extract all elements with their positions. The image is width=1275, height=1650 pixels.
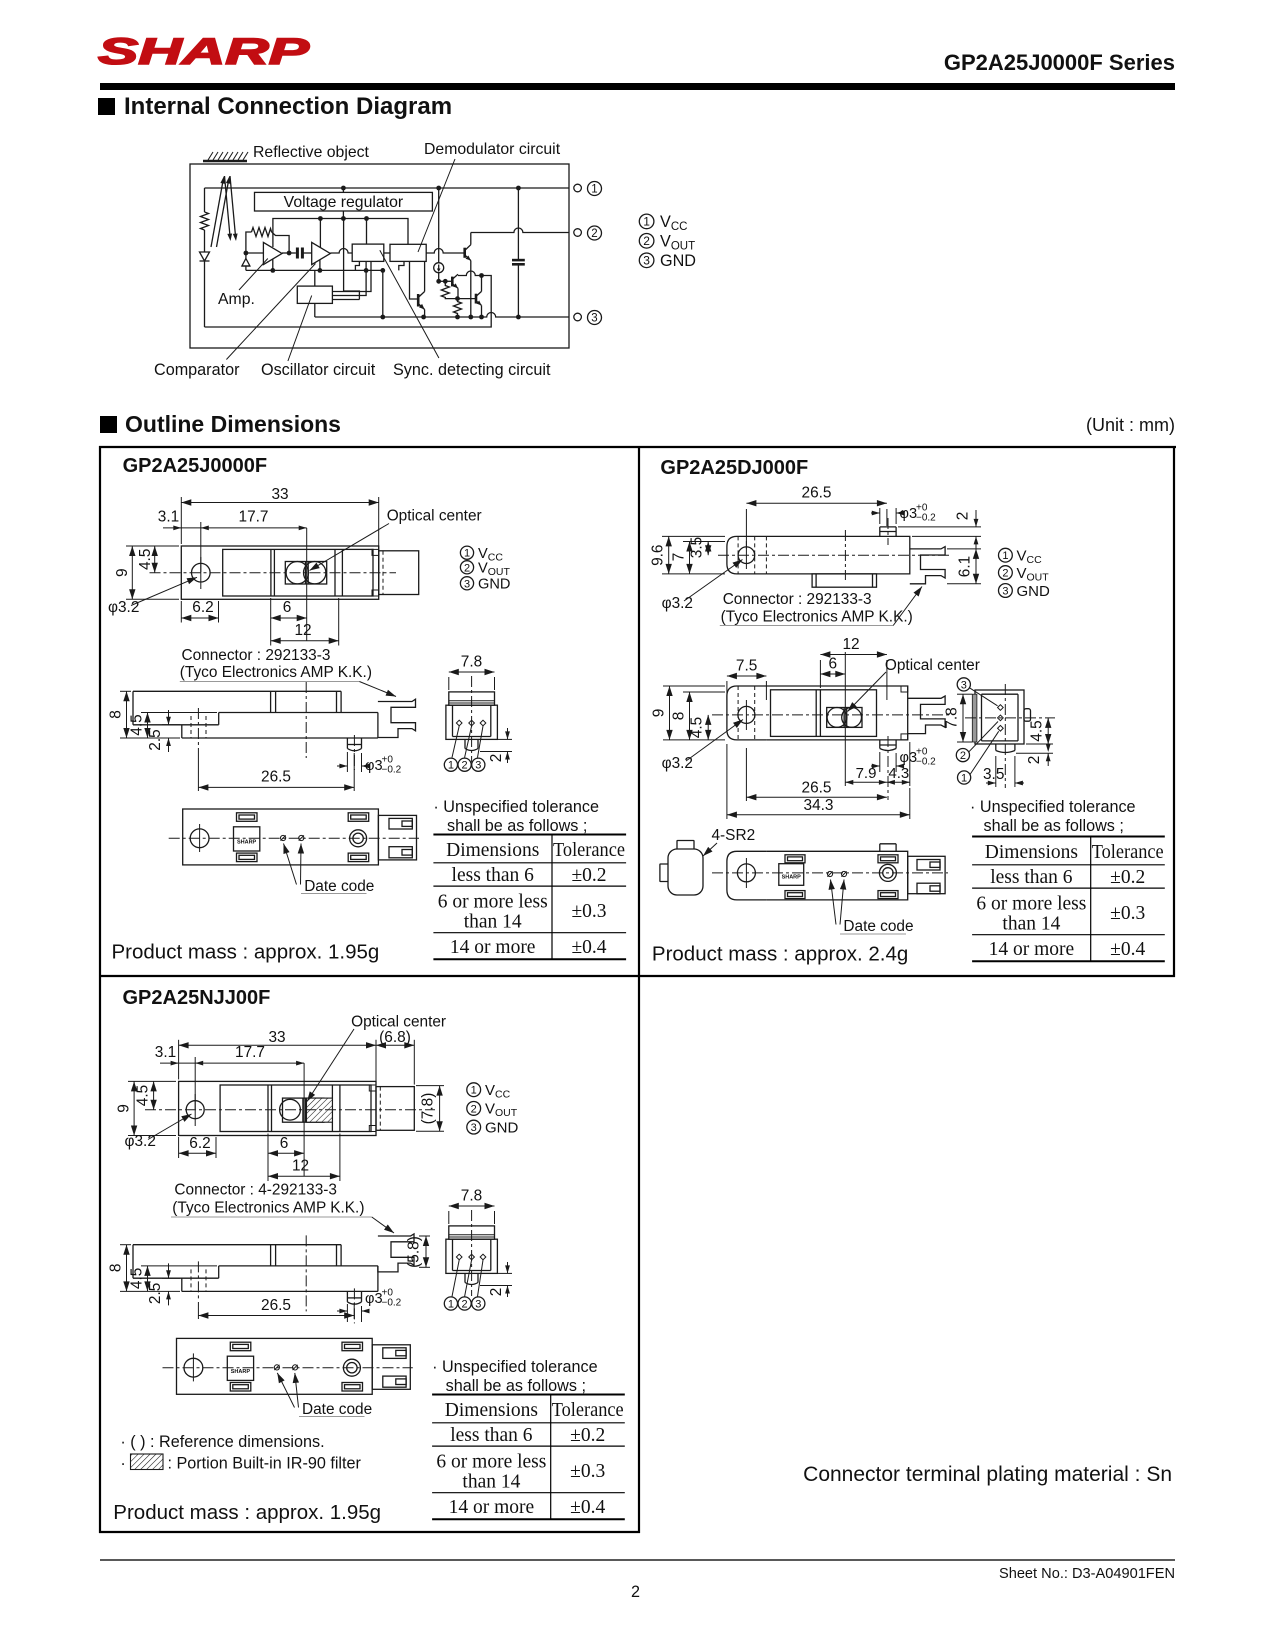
resistor R3	[441, 281, 457, 298]
node VCC-VR junction	[341, 186, 346, 191]
wire box2 lead to Q2 base	[410, 261, 419, 299]
svg-text:6: 6	[829, 656, 838, 673]
resistor R4	[454, 299, 462, 317]
svg-text:Comparator: Comparator	[154, 361, 240, 379]
pin legend	[460, 546, 473, 559]
svg-text:±0.4: ±0.4	[571, 937, 606, 958]
top view pin stub below	[880, 740, 896, 751]
svg-text:φ3.2: φ3.2	[125, 1133, 156, 1150]
dim 12	[820, 655, 887, 701]
bottom view reuse	[163, 1338, 413, 1394]
bottom view lens ring	[350, 830, 367, 847]
dim 8	[683, 692, 725, 740]
svg-text:Product mass : approx. 1.95g: Product mass : approx. 1.95g	[113, 1501, 381, 1524]
svg-text:φ3.2: φ3.2	[108, 599, 139, 616]
dim 6.2	[181, 601, 218, 623]
svg-text:3.5: 3.5	[689, 537, 706, 558]
dim 4.5	[153, 1081, 155, 1109]
dim 9.6	[662, 536, 725, 574]
dim 9	[128, 1081, 176, 1135]
dim 4.5 end	[1026, 718, 1053, 744]
wire lower sub rail	[246, 269, 383, 271]
end cap drawing	[668, 849, 703, 895]
side view fork	[910, 547, 945, 584]
bottom view connector	[378, 815, 416, 860]
wire feedback right lead	[272, 232, 290, 253]
dim phi3 pin NJJ	[337, 1304, 364, 1322]
svg-text:Voltage regulator: Voltage regulator	[284, 194, 403, 211]
svg-text:2: 2	[643, 234, 650, 248]
pin 3 GND terminal	[574, 313, 582, 321]
transistor Q1 output	[465, 245, 471, 261]
voltage regulator box U1	[255, 192, 433, 211]
svg-text:3: 3	[475, 760, 481, 772]
reflected light arrow 1	[225, 176, 230, 235]
svg-text:3: 3	[464, 578, 470, 590]
svg-text:3.1: 3.1	[158, 509, 179, 526]
top view connector	[376, 1087, 414, 1131]
side view reuse	[108, 1235, 378, 1323]
transistor Q2	[418, 292, 424, 310]
dim (7.8)	[416, 1086, 444, 1132]
svg-text:1: 1	[464, 548, 470, 560]
node sub rail VR stub	[341, 216, 346, 221]
wire feedback left lead	[246, 232, 252, 253]
bottom view body	[766, 851, 907, 900]
side view fork bracket	[378, 699, 416, 737]
end view body	[446, 705, 498, 739]
pin 1 VCC terminal	[574, 184, 582, 192]
end view cap	[449, 692, 495, 705]
svg-text:2: 2	[631, 1583, 640, 1601]
leader to demodulator box	[418, 159, 455, 252]
side view pin stub	[347, 738, 361, 751]
wire mirror bias line	[439, 280, 453, 282]
side view fork NJJ	[378, 1234, 414, 1272]
wire ground rail with hop	[315, 313, 569, 318]
dim 26.5 side	[198, 748, 354, 791]
svg-text:26.5: 26.5	[261, 1297, 291, 1314]
top view lens	[285, 562, 326, 585]
svg-text:VOUT: VOUT	[1017, 565, 1050, 584]
svg-text:9.6: 9.6	[650, 544, 667, 565]
svg-text:3: 3	[591, 313, 597, 325]
svg-text:3: 3	[643, 254, 650, 268]
svg-text:(Tyco Electronics AMP K.K.): (Tyco Electronics AMP K.K.)	[172, 1200, 364, 1217]
tolerance table	[972, 837, 1165, 962]
wire VR stub to VCC	[342, 188, 344, 192]
svg-text:7.8: 7.8	[944, 707, 961, 728]
reflective object hatch	[203, 152, 248, 161]
svg-text:less than 6: less than 6	[452, 865, 535, 886]
dim (6.8)	[376, 1040, 414, 1085]
svg-text:(Tyco Electronics AMP K.K.): (Tyco Electronics AMP K.K.)	[180, 664, 372, 681]
svg-text:Product mass : approx. 1.95g: Product mass : approx. 1.95g	[112, 941, 380, 964]
end view 7.8 dim	[449, 672, 495, 690]
wire VCC rail	[205, 187, 570, 189]
svg-text:1: 1	[591, 184, 597, 196]
svg-text:Connector terminal plating mat: Connector terminal plating material : Sn	[803, 1463, 1172, 1486]
tolerance table reuse	[432, 1395, 625, 1520]
svg-text:2: 2	[471, 1103, 477, 1115]
svg-text:(5.8): (5.8)	[406, 1236, 423, 1268]
side view top pin stub	[880, 527, 896, 537]
dim 12	[271, 598, 339, 646]
dim 3.5 end	[986, 756, 1024, 787]
svg-text:4-SR2: 4-SR2	[712, 827, 756, 844]
svg-text:1: 1	[471, 1085, 477, 1097]
svg-text:φ3: φ3	[900, 750, 918, 766]
transistor Q4	[476, 291, 482, 305]
dim 2 top right	[898, 510, 981, 552]
op-amp Amp1	[263, 242, 282, 264]
wire Q4 base line	[458, 298, 477, 300]
svg-text:2: 2	[1026, 756, 1043, 765]
svg-text:(6.8): (6.8)	[379, 1029, 411, 1046]
svg-text:(Unit : mm): (Unit : mm)	[1086, 415, 1175, 435]
wire osc top stub	[314, 270, 316, 286]
svg-text:2: 2	[464, 562, 470, 574]
wire sub rail under VR	[273, 219, 408, 248]
dim phi3 top	[871, 508, 899, 524]
wire Q3 emitter down	[457, 288, 459, 298]
node lower rail osc	[364, 268, 369, 273]
svg-text:6: 6	[280, 1135, 289, 1152]
top view connector	[379, 551, 419, 595]
end view pins	[456, 720, 462, 726]
svg-text:than 14: than 14	[464, 912, 522, 933]
wire osc output 2	[332, 270, 366, 295]
svg-text:Optical center: Optical center	[885, 657, 980, 674]
wire Q4 collector	[481, 276, 483, 292]
svg-text:(7.8): (7.8)	[419, 1093, 436, 1125]
dim 7.8 end	[957, 694, 972, 742]
svg-text:4.3: 4.3	[888, 765, 909, 782]
dim 4.5	[154, 546, 156, 573]
dim phi3 pin	[337, 752, 364, 772]
end view 2 dim	[480, 728, 512, 763]
svg-text:Product mass : approx. 2.4g: Product mass : approx. 2.4g	[652, 943, 908, 966]
wire amp2 bottom stub	[319, 260, 321, 271]
dim 9	[663, 686, 725, 740]
leader Comparator to amp2	[226, 264, 315, 360]
svg-text:VOUT: VOUT	[660, 232, 695, 252]
wire Q3 collector rail with hop	[458, 271, 482, 276]
svg-text:3: 3	[475, 1299, 481, 1311]
svg-text:12: 12	[292, 1158, 309, 1175]
node cap ground	[516, 315, 521, 320]
svg-text:1: 1	[643, 215, 650, 229]
svg-text:SHARP: SHARP	[237, 840, 257, 846]
svg-text:Dimensions: Dimensions	[446, 840, 539, 861]
wire amp1 out to cap	[282, 252, 296, 254]
wire amp1 input	[246, 252, 264, 254]
svg-text:−0.2: −0.2	[916, 757, 936, 768]
capacitor C1	[517, 188, 519, 259]
svg-text:4.5: 4.5	[135, 1085, 152, 1106]
svg-text:Connector : 292133-3: Connector : 292133-3	[182, 647, 331, 664]
svg-text:14 or more: 14 or more	[450, 937, 536, 958]
svg-text:GND: GND	[478, 577, 510, 593]
svg-text:3: 3	[961, 679, 967, 691]
svg-text:GP2A25DJ000F: GP2A25DJ000F	[660, 457, 808, 479]
svg-text:·: ·	[120, 1455, 125, 1473]
svg-text:Outline Dimensions: Outline Dimensions	[125, 411, 341, 437]
end view pin numbers	[452, 726, 459, 758]
wire lower rail to ground	[382, 270, 384, 317]
svg-text:Demodulator circuit: Demodulator circuit	[424, 141, 561, 158]
svg-text:−0.2: −0.2	[382, 1298, 402, 1309]
svg-text:2: 2	[1002, 568, 1008, 580]
resistor R2 feedback	[252, 228, 272, 237]
svg-text:VCC: VCC	[660, 213, 687, 233]
svg-text:1: 1	[448, 760, 454, 772]
dim 6	[820, 673, 845, 675]
wire amp2 out with hop	[330, 249, 352, 254]
svg-text:SHARP: SHARP	[782, 875, 802, 881]
op-amp Amp2 comparator	[312, 242, 331, 264]
wire cap to amp2	[302, 252, 311, 254]
dim 6	[271, 598, 307, 646]
svg-text:shall be as follows ;: shall be as follows ;	[447, 817, 587, 835]
FOOTER	[100, 1559, 1175, 1561]
end view	[975, 690, 1024, 744]
svg-text:GND: GND	[485, 1119, 519, 1136]
wire Q2 emitter to ground	[424, 310, 426, 318]
svg-text:Optical center: Optical center	[387, 508, 482, 525]
top view mounting hole	[192, 563, 211, 582]
node amp1 output	[287, 251, 292, 256]
end view bottom stub	[465, 739, 478, 750]
svg-text:2: 2	[591, 228, 597, 240]
wire box1 top stub	[366, 219, 368, 245]
wire osc output 1	[332, 261, 371, 291]
wire Q2 collector to box2	[424, 261, 426, 291]
wire Q4 emitter to ground	[481, 305, 483, 317]
top view body	[179, 1081, 376, 1135]
svg-text:4.5: 4.5	[1029, 720, 1046, 741]
svg-text:6.2: 6.2	[192, 599, 213, 616]
dim 7.5	[727, 676, 767, 700]
wire amp2 power stub	[319, 219, 321, 249]
LED D1	[200, 252, 210, 261]
svg-text:4.5: 4.5	[129, 714, 146, 735]
svg-text:7.5: 7.5	[736, 658, 757, 675]
wire box2 to Q1 base with hop	[426, 249, 465, 254]
svg-text:3.5: 3.5	[983, 766, 1004, 783]
node lower rail amp1	[270, 268, 275, 273]
svg-text:Connector : 4-292133-3: Connector : 4-292133-3	[174, 1182, 337, 1199]
node ground lower-rail	[380, 315, 385, 320]
svg-text:9: 9	[651, 709, 668, 718]
svg-text:Tolerance: Tolerance	[553, 840, 625, 861]
svg-text:33: 33	[268, 1029, 285, 1046]
legend pin2 VOUT	[639, 234, 654, 249]
svg-text:GP2A25J0000F: GP2A25J0000F	[123, 455, 268, 477]
dim 2 end	[1016, 753, 1053, 766]
wire Q1 emitter down	[470, 261, 472, 318]
svg-text:Optical center: Optical center	[351, 1014, 446, 1031]
node bias R3 tap	[443, 279, 448, 284]
phi3 pin dim	[871, 752, 899, 772]
dim 4.5	[707, 715, 709, 740]
top view lens with IR filter	[283, 1098, 324, 1122]
node R3 R4 junction	[455, 296, 460, 301]
dim 8	[120, 691, 180, 738]
svg-text:2.5: 2.5	[147, 729, 164, 750]
outline box borders	[99, 446, 1176, 1533]
OUTLINE HEADER	[100, 416, 117, 433]
svg-text:1: 1	[961, 773, 967, 785]
dim 4.5 side	[141, 713, 217, 739]
svg-text:4.5: 4.5	[137, 549, 154, 570]
pin legend	[467, 1083, 481, 1097]
svg-text:17.7: 17.7	[235, 1044, 265, 1061]
svg-text:2: 2	[488, 754, 505, 763]
svg-text:shall be as follows ;: shall be as follows ;	[446, 1377, 586, 1395]
bottom view body	[183, 809, 379, 865]
current source CS1	[438, 188, 440, 263]
optical center line	[306, 528, 308, 641]
svg-text:8: 8	[108, 710, 125, 719]
svg-text:12: 12	[294, 622, 311, 639]
leader Sync	[380, 250, 439, 358]
node sub rail box1 stub	[364, 216, 369, 221]
svg-text:VCC: VCC	[485, 1082, 511, 1101]
svg-text:±0.3: ±0.3	[571, 901, 606, 922]
resistor R1	[201, 212, 209, 230]
wire VOUT line with hop at cap	[471, 228, 569, 233]
svg-text:9: 9	[114, 568, 131, 577]
svg-text:· Unspecified tolerance: · Unspecified tolerance	[432, 1358, 598, 1376]
svg-text:7.9: 7.9	[856, 765, 877, 782]
bottom view sharp box	[234, 827, 260, 851]
leader Amp to amp1	[239, 259, 268, 291]
side view body	[108, 682, 378, 770]
tolerance table	[433, 835, 626, 960]
svg-text:Reflective object: Reflective object	[253, 144, 370, 161]
svg-text:· ( ) : Reference dimension: · ( ) : Reference dimensions.	[120, 1433, 324, 1451]
top view body	[766, 686, 907, 740]
svg-text:Sync. detecting circuit: Sync. detecting circuit	[393, 361, 551, 379]
svg-text:φ3.2: φ3.2	[662, 755, 693, 772]
capacitor C2 coupling	[297, 248, 302, 259]
top view hole	[186, 1101, 204, 1119]
pin 2 VOUT terminal	[574, 229, 582, 237]
svg-text:Amp.: Amp.	[218, 291, 255, 308]
dim 9	[126, 546, 179, 599]
node ground R4	[455, 315, 460, 320]
svg-text:GND: GND	[660, 252, 696, 270]
svg-text:Oscillator circuit: Oscillator circuit	[261, 361, 376, 379]
svg-text:2: 2	[960, 750, 966, 762]
dim (5.8)	[419, 1236, 430, 1267]
svg-text:VOUT: VOUT	[485, 1101, 518, 1120]
svg-text:1: 1	[1002, 550, 1008, 562]
end view reuse	[446, 1188, 512, 1298]
svg-text:6.1: 6.1	[957, 556, 974, 577]
dim 33	[181, 497, 378, 549]
side view bottom housing	[812, 574, 876, 587]
wire VR long stub down	[342, 211, 344, 219]
node VCC-capacitor junction	[516, 186, 521, 191]
side view hidden hole	[191, 716, 206, 738]
node ground Q2	[421, 315, 426, 320]
top view fork	[908, 696, 945, 734]
box sync detecting circuit	[352, 244, 384, 261]
svg-text:3.1: 3.1	[155, 1044, 176, 1061]
dim 7	[683, 542, 725, 574]
pin legend	[999, 548, 1013, 562]
wire bottom inner rail	[205, 276, 492, 328]
svg-text:−0.2: −0.2	[382, 765, 402, 776]
svg-text:7: 7	[671, 553, 688, 562]
end view pin callouts	[957, 678, 970, 691]
node ground Q1e	[468, 315, 473, 320]
box demodulator circuit	[390, 244, 426, 261]
svg-text:Date code: Date code	[302, 1401, 372, 1418]
wire vertical feed line	[344, 219, 360, 300]
svg-text:6: 6	[283, 599, 292, 616]
dim 26.5	[746, 503, 887, 549]
bottom view slots	[237, 813, 258, 822]
wire amp1 bottom stub	[272, 260, 274, 271]
transistor Q3	[452, 274, 458, 288]
svg-text:2: 2	[955, 512, 972, 521]
photodiode D2	[242, 253, 250, 270]
wire osc bottom stub	[314, 303, 316, 317]
node sub rail amp2 stub	[318, 216, 323, 221]
wire box2 bottom lead to rail	[399, 261, 404, 270]
node lower rail amp2	[318, 268, 323, 273]
svg-text:GP2A25NJJ00F: GP2A25NJJ00F	[123, 987, 271, 1009]
dim 34.3	[727, 744, 910, 819]
svg-text:26.5: 26.5	[802, 485, 832, 502]
bottom view date marks	[281, 835, 304, 840]
svg-text:Internal Connection Diagram: Internal Connection Diagram	[124, 93, 452, 120]
svg-text:SHARP: SHARP	[98, 31, 310, 72]
svg-text:Date code: Date code	[843, 918, 913, 935]
svg-text:VCC: VCC	[1017, 548, 1043, 567]
dim 3.1 and 17.7	[163, 522, 307, 572]
dim 12	[268, 1134, 340, 1182]
wire R1 to LED	[204, 230, 206, 252]
svg-text:−0.2: −0.2	[916, 513, 936, 524]
svg-text:: Portion Built-in IR-90 filte: : Portion Built-in IR-90 filter	[168, 1455, 362, 1473]
dim 3.5	[707, 542, 709, 556]
node current source out	[436, 279, 441, 284]
oscillator box U2	[297, 286, 332, 303]
svg-text:(Tyco Electronics AMP K.K.): (Tyco Electronics AMP K.K.)	[721, 609, 913, 626]
top view body	[181, 546, 378, 599]
svg-text:26.5: 26.5	[802, 780, 832, 797]
svg-text:8: 8	[671, 712, 688, 721]
svg-text:4.5: 4.5	[689, 717, 706, 738]
wire box1-box2	[384, 252, 390, 254]
svg-text:Connector : 292133-3: Connector : 292133-3	[723, 591, 872, 608]
svg-text:3: 3	[471, 1122, 477, 1134]
svg-text:GND: GND	[1017, 583, 1051, 600]
svg-text:Sheet No.: D3-A04901FEN: Sheet No.: D3-A04901FEN	[999, 1566, 1175, 1582]
top view centerline	[150, 572, 397, 574]
dim 26.5	[746, 748, 887, 801]
leader Oscillator	[288, 296, 312, 362]
legend pin1 VCC	[639, 214, 654, 229]
svg-text:GP2A25J0000F Series: GP2A25J0000F Series	[944, 50, 1175, 75]
wire box1 bottom leads	[355, 261, 359, 270]
svg-text:φ3: φ3	[365, 758, 383, 774]
svg-text:12: 12	[842, 636, 859, 653]
